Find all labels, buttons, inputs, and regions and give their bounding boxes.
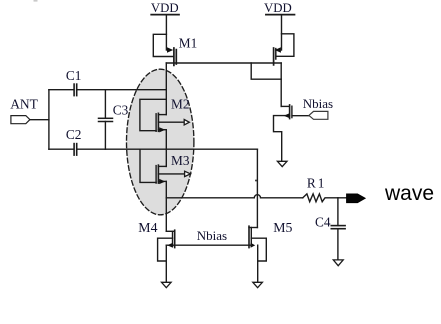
channel bar	[157, 165, 159, 183]
svg-text:ANT: ANT	[10, 96, 38, 111]
wire: drain rail M1 to right transistor	[166, 62, 281, 64]
C1 plates	[73, 84, 75, 96]
drain lead	[158, 114, 166, 116]
transistor M4	[158, 230, 175, 282]
svg-text:wave: wave	[384, 182, 434, 205]
wire: M1 drain down to node A	[165, 63, 167, 115]
shaded ellipse (dashed) around M2/M3	[127, 69, 194, 215]
capacitor C3	[99, 90, 113, 150]
wire junction to C4	[337, 198, 339, 226]
drain lead	[166, 230, 174, 232]
VDD rail left (bar)	[151, 14, 179, 16]
right top transistor (mirror of M1)	[274, 34, 294, 65]
wire: input split vertical	[48, 90, 50, 150]
wire M3 source down to M4 drain	[165, 181, 167, 231]
svg-text:C2: C2	[66, 127, 82, 142]
channel bar	[174, 230, 176, 247]
C3 plates	[99, 117, 113, 119]
wire VDD to M1 source	[165, 15, 167, 50]
bulk lead with open arrow	[158, 173, 184, 175]
source wire down	[165, 245, 167, 282]
wire left of C1	[49, 89, 74, 91]
channel bar	[273, 48, 275, 65]
VDD rail right (bar)	[266, 14, 295, 16]
wire: redundant box below drain rail	[251, 63, 281, 79]
gate bar	[291, 106, 293, 117]
channel bar	[248, 226, 250, 247]
svg-text:M1: M1	[179, 35, 197, 50]
source arrow	[275, 47, 281, 52]
source arrow	[167, 243, 173, 248]
transistor M3 (diode connected)	[140, 149, 191, 184]
ground (M5)	[253, 282, 263, 287]
source arrow	[251, 243, 256, 248]
gate bar	[155, 166, 157, 184]
transistor Nbias follower	[274, 105, 292, 161]
svg-text:Nbias: Nbias	[303, 96, 333, 111]
C2 plates	[73, 144, 75, 156]
gate loop wire (to node B line)	[140, 149, 156, 182]
svg-text:VDD: VDD	[264, 1, 292, 15]
wire M1 gate loop	[153, 34, 173, 56]
svg-text:R1: R1	[307, 176, 327, 191]
wire M2 source to node B to M3 drain	[165, 130, 167, 167]
source arrow	[284, 113, 290, 118]
bulk lead with open arrow	[158, 121, 184, 123]
gate loop wire	[158, 238, 173, 261]
wire left of C2	[49, 148, 74, 150]
wire: drain rail down to Nbias transistor	[280, 63, 282, 106]
wire: output line with hop over M5 branch	[166, 195, 302, 198]
transistor M2 (diode connected)	[140, 99, 189, 132]
drain lead	[158, 165, 166, 167]
transistor M5	[249, 226, 266, 282]
source arrow	[159, 127, 165, 132]
source wire loop to ground	[274, 116, 290, 162]
ground (below Nbias transistor)	[277, 161, 287, 166]
M1 source arrow	[167, 47, 173, 52]
svg-text:C1: C1	[66, 68, 82, 83]
M1 gate bar	[173, 48, 175, 65]
resistor R1 zigzag	[303, 194, 347, 202]
ground (M4)	[162, 282, 172, 287]
ground (C4)	[333, 260, 343, 266]
wire above C3	[104, 90, 106, 119]
svg-text:M2: M2	[171, 96, 189, 111]
C4 plates	[331, 225, 345, 227]
source lead	[158, 129, 166, 131]
svg-text:C3: C3	[113, 102, 129, 117]
wave output tag (filled)	[347, 194, 366, 203]
wire C4 to ground	[337, 229, 339, 260]
capacitor C1	[49, 84, 166, 96]
gate bar	[250, 228, 252, 247]
transistor M1 (gate loop tied to VDD line)	[153, 34, 176, 65]
stray mark top edge	[34, 0, 38, 2]
M1 channel bar	[175, 50, 177, 64]
ANT terminal tag	[11, 116, 30, 124]
stray dot on wire	[255, 180, 257, 182]
wire: node B down to M5 drain	[256, 149, 258, 227]
svg-text:M5: M5	[273, 220, 292, 235]
gate bar	[172, 232, 174, 247]
drain lead	[281, 105, 289, 107]
svg-text:M4: M4	[138, 220, 157, 235]
wire below C3	[104, 122, 106, 150]
wire C2 to node B and over to M5 drain branch	[77, 148, 257, 150]
capacitor C4	[331, 198, 345, 260]
svg-text:C4: C4	[315, 215, 331, 230]
gate loop	[276, 34, 294, 57]
wire: gate lead to Nbias tag	[292, 115, 309, 117]
svg-text:VDD: VDD	[151, 1, 179, 15]
gate bar	[275, 49, 277, 59]
source lead	[158, 180, 166, 182]
source wire down	[257, 245, 259, 282]
gate bar	[155, 114, 157, 132]
Nbias terminal tag	[309, 111, 328, 119]
wire: Nbias gate rail M4-M5	[166, 244, 251, 246]
gate loop wire (to drain node)	[140, 99, 166, 130]
channel bar	[157, 113, 159, 131]
wire ANT to split node	[30, 119, 49, 121]
capacitor C2	[49, 144, 258, 156]
wire C1 to node A	[77, 89, 166, 91]
svg-text:Nbias: Nbias	[197, 228, 227, 243]
drain lead	[249, 227, 257, 229]
svg-text:M3: M3	[171, 153, 190, 168]
wire VDD right to transistor	[281, 15, 283, 50]
channel bar	[289, 105, 291, 119]
source arrow	[159, 179, 165, 184]
gate loop wire	[251, 238, 266, 261]
